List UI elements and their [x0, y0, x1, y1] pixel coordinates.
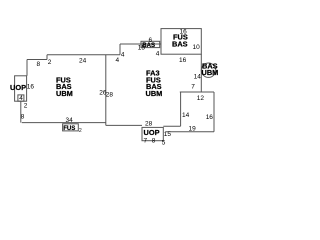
- svg-text:5: 5: [162, 139, 166, 146]
- svg-text:10: 10: [193, 44, 201, 51]
- svg-text:UBM: UBM: [56, 89, 73, 98]
- wire bottom long edge 34ft: [22, 122, 106, 124]
- svg-text:7: 7: [144, 137, 148, 144]
- svg-text:6: 6: [149, 37, 153, 44]
- wire right box bottom edge: [166, 131, 214, 133]
- wire right box top edge: [180, 91, 214, 93]
- wire step vertical 4ft: [119, 44, 121, 55]
- svg-text:2: 2: [79, 128, 82, 134]
- wire top-left step horizontal: [27, 59, 47, 61]
- wire bottom edge 14ft outline: [163, 125, 180, 127]
- node BAS mid boxlet: [141, 41, 160, 47]
- svg-text:8: 8: [152, 137, 156, 144]
- svg-text:28: 28: [145, 121, 153, 128]
- wire main top edge 24ft: [47, 54, 120, 56]
- svg-text:UBM: UBM: [202, 68, 219, 77]
- svg-text:16: 16: [179, 57, 187, 64]
- svg-text:16: 16: [180, 29, 188, 36]
- svg-text:BAS: BAS: [172, 40, 188, 49]
- node UOP bottom porch box: [142, 127, 163, 140]
- svg-text:12: 12: [197, 95, 205, 102]
- svg-text:28: 28: [106, 92, 114, 99]
- wire right box right edge 16ft: [213, 92, 215, 132]
- wire step vertical 2ft: [46, 55, 48, 60]
- svg-text:FUS: FUS: [63, 125, 75, 132]
- svg-text:19: 19: [189, 125, 197, 132]
- node UOP left porch box: [15, 76, 27, 101]
- svg-text:15: 15: [138, 45, 146, 52]
- svg-text:16: 16: [206, 114, 214, 121]
- wire left lower wall: [20, 101, 22, 122]
- svg-text:2: 2: [24, 103, 28, 110]
- svg-text:14: 14: [194, 73, 202, 80]
- wire interior vertical 26/28: [105, 55, 107, 126]
- wire bottom edge 28ft: [106, 124, 142, 126]
- wire right wall below top box: [200, 54, 202, 92]
- node top box FUS/BAS: [161, 29, 201, 55]
- wire right box left edge 14ft: [180, 92, 182, 126]
- svg-text:UOP: UOP: [144, 128, 160, 137]
- svg-text:14: 14: [182, 112, 190, 119]
- svg-text:15: 15: [164, 131, 172, 138]
- svg-text:24: 24: [79, 58, 87, 65]
- svg-text:8: 8: [21, 114, 25, 121]
- svg-text:UBM: UBM: [146, 89, 163, 98]
- svg-text:4: 4: [19, 95, 23, 102]
- svg-text:UOP: UOP: [10, 83, 26, 92]
- wire upper edge to addition: [120, 43, 161, 45]
- svg-text:4: 4: [116, 57, 120, 64]
- node small 4ft boxlet: [18, 95, 24, 101]
- wire left wall: [26, 60, 28, 76]
- svg-text:34: 34: [66, 117, 74, 124]
- svg-text:16: 16: [27, 83, 35, 90]
- svg-text:7: 7: [191, 84, 195, 91]
- svg-text:4: 4: [156, 51, 160, 58]
- svg-text:8: 8: [37, 61, 41, 68]
- svg-text:4: 4: [121, 51, 125, 58]
- node circle BAS/UBM bay: [201, 63, 215, 77]
- svg-text:2: 2: [48, 59, 52, 66]
- node FUS bottom boxlet: [63, 124, 79, 131]
